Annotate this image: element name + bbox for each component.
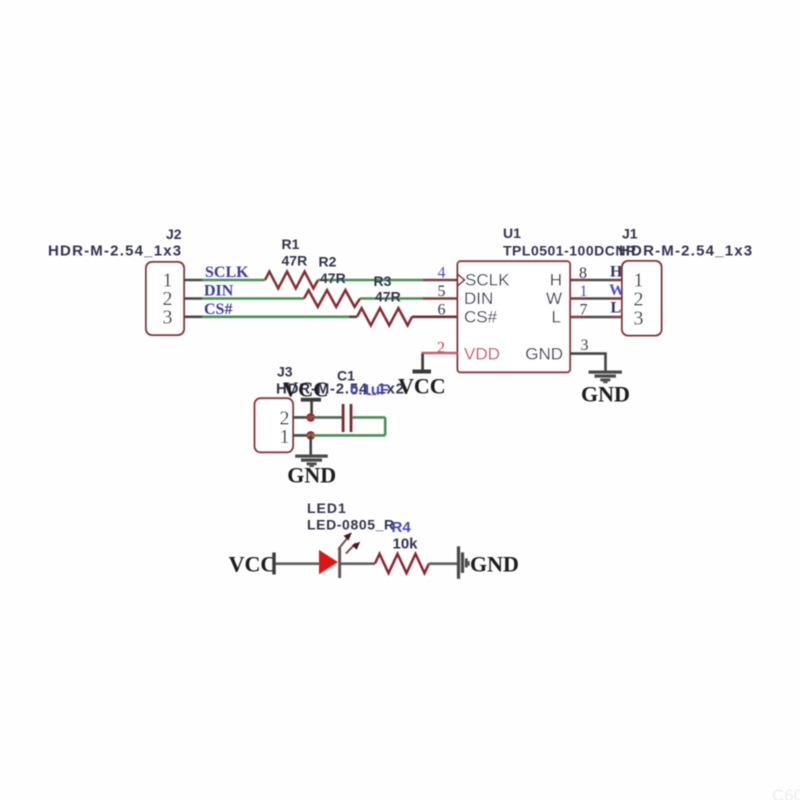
svg-text:3: 3 [163, 307, 173, 329]
svg-text:3: 3 [634, 308, 644, 330]
svg-text:GND: GND [525, 345, 563, 364]
resistor R1 [265, 272, 318, 289]
wire DIN left segment [202, 297, 304, 300]
wire DIN right segment [360, 297, 424, 300]
connector J3 body [255, 398, 293, 452]
VCC symbol bar at LED [272, 553, 275, 575]
R3 lead from wire [349, 315, 357, 318]
svg-text:C60B0: C60B0 [772, 786, 800, 800]
GND wire from U1 pin 3 [570, 354, 606, 371]
svg-text:VCC: VCC [398, 374, 446, 399]
GND symbol below J3 [295, 455, 328, 468]
svg-text:R4: R4 [392, 519, 412, 536]
J2 pin 2 stub [184, 297, 203, 300]
wire right vertical of loop [384, 417, 387, 435]
svg-text:GND: GND [287, 463, 336, 488]
svg-text:CS#: CS# [204, 301, 232, 318]
svg-text:3: 3 [581, 337, 589, 354]
svg-text:R1: R1 [282, 236, 300, 252]
LED D1 triangle [319, 550, 338, 574]
resistor R3 [357, 308, 412, 325]
U1 body [458, 261, 571, 372]
connector J2 body [146, 262, 184, 335]
junction dot upper [306, 413, 315, 422]
svg-text:VDD: VDD [464, 345, 500, 364]
J3 pin 1 stub [293, 434, 308, 437]
resistor R4 [375, 554, 429, 573]
svg-text:LED-0805_R: LED-0805_R [307, 517, 395, 533]
svg-text:W: W [546, 289, 562, 308]
J2 pin 1 stub [184, 279, 203, 282]
VCC symbol stem at J3 [310, 402, 313, 418]
svg-text:0.1uF: 0.1uF [350, 382, 389, 399]
svg-text:GND: GND [470, 552, 519, 577]
svg-text:L: L [552, 307, 561, 326]
R3 lead to U1 [412, 315, 458, 318]
LED emission arrow 2 [346, 542, 360, 554]
GND stem below J3 junction [309, 435, 312, 454]
svg-text:47R: 47R [320, 270, 346, 286]
svg-text:R3: R3 [374, 273, 392, 289]
wire VCC to LED [276, 562, 320, 565]
wire U1 pin 7 to J1 pin 3 [570, 316, 622, 319]
wire U1 pin 1 to J1 pin 2 [570, 297, 622, 300]
wire C1 to right vertical [352, 416, 385, 419]
capacitor C1 plate left [342, 404, 345, 432]
VCC symbol stem at U1 pin 2 [421, 354, 424, 370]
svg-text:HDR-M-2.54_1x3: HDR-M-2.54_1x3 [48, 243, 182, 260]
J3 pin 2 stub [293, 416, 308, 419]
VCC symbol bar at U1 pin 2 [413, 370, 432, 374]
VDD wire to VCC symbol [423, 353, 458, 370]
junction dot lower [306, 431, 315, 440]
svg-text:CS#: CS# [464, 307, 498, 326]
svg-text:4: 4 [438, 265, 446, 282]
svg-text:LED1: LED1 [307, 500, 347, 516]
svg-text:HDR-M-2.54_1x3: HDR-M-2.54_1x3 [619, 243, 753, 260]
svg-text:J2: J2 [166, 226, 182, 242]
GND symbol at LED row [457, 546, 470, 579]
svg-text:H: H [550, 270, 562, 289]
svg-text:SCLK: SCLK [465, 270, 510, 289]
svg-text:J1: J1 [622, 226, 638, 242]
svg-text:47R: 47R [282, 253, 308, 269]
U1 pin 5 stub [423, 297, 458, 300]
svg-text:5: 5 [438, 283, 446, 300]
GND symbol at U1 pin 3 [589, 371, 622, 384]
svg-text:1: 1 [280, 426, 290, 448]
wire bottom of loop [308, 434, 385, 437]
svg-text:DIN: DIN [204, 283, 234, 300]
resistor R2 [304, 290, 360, 307]
svg-text:47R: 47R [375, 289, 401, 305]
U1 clock marker at SCLK [458, 275, 465, 286]
svg-text:U1: U1 [503, 225, 521, 241]
LED cathode bar [338, 548, 341, 578]
svg-text:SCLK: SCLK [205, 264, 249, 281]
svg-text:DIN: DIN [464, 289, 493, 308]
LED emission arrow 1 [338, 532, 352, 549]
capacitor C1 plate right [350, 404, 353, 432]
svg-text:L: L [611, 300, 622, 317]
wire SCLK left segment [202, 279, 265, 282]
svg-text:R2: R2 [319, 254, 337, 270]
J2 pin 3 stub [184, 315, 203, 318]
svg-text:6: 6 [438, 302, 446, 319]
connector J1 body [622, 261, 662, 336]
svg-text:TPL0501-100DCNR: TPL0501-100DCNR [503, 243, 637, 259]
svg-text:VCC: VCC [229, 552, 277, 577]
VCC symbol bar at J3 [301, 398, 321, 402]
svg-text:GND: GND [581, 382, 630, 407]
wire J3 to C1 [308, 416, 342, 419]
wire U1 pin 8 to J1 pin 1 [570, 279, 622, 282]
svg-text:10k: 10k [393, 536, 419, 553]
wire SCLK right segment [318, 279, 424, 282]
wire LED to R4 [341, 562, 375, 565]
wire CS# left segment [202, 315, 349, 318]
wire R4 to GND [429, 562, 457, 565]
U1 pin 4 stub [423, 279, 458, 282]
